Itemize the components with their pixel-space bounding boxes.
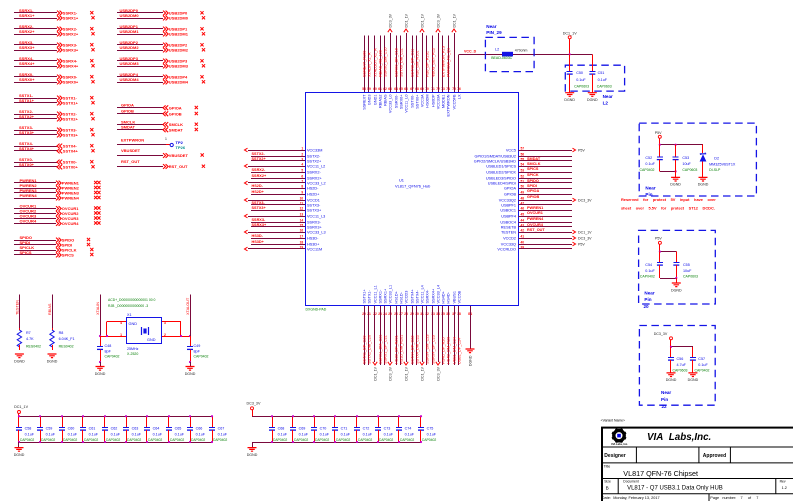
svg-text:VCC33_L3: VCC33_L3 [307, 230, 326, 234]
svg-text:C49: C49 [194, 344, 201, 348]
svg-text:6.04K_F1: 6.04K_F1 [59, 337, 75, 341]
wire SSTX3- [251, 204, 305, 206]
wire SPIDI [519, 182, 573, 184]
svg-text:44: 44 [521, 218, 525, 222]
svg-text:Title: Title [604, 465, 611, 469]
wire power DC3_3V [438, 306, 440, 362]
port SSRX0- [57, 75, 62, 80]
wire OVCUR2 [14, 213, 56, 215]
svg-text:C71: C71 [341, 427, 348, 431]
svg-text:DC3_3V: DC3_3V [247, 402, 261, 406]
wire SSTX0_DM_C11 [400, 36, 402, 93]
wire EXTPWRON_R13 [442, 36, 444, 93]
svg-text:22: 22 [662, 404, 668, 409]
wire power VCC33_L3 [248, 232, 305, 234]
svg-text:C56: C56 [677, 357, 684, 361]
svg-text:10uF: 10uF [682, 162, 691, 166]
svg-text:CAP0402: CAP0402 [315, 438, 330, 442]
svg-text:17: 17 [300, 234, 304, 238]
svg-text:CAP0402: CAP0402 [106, 438, 121, 442]
wire RST_OUT [117, 166, 163, 168]
no-connect OVCUR4 [94, 221, 97, 224]
no-connect USB2DP3 [200, 59, 203, 62]
wire SPICLK [14, 250, 56, 252]
wire power DC1_1V [519, 232, 573, 234]
wire SSRX3+ [14, 50, 57, 52]
wire USB2DP2 [117, 44, 163, 46]
svg-text:SSTX1+: SSTX1+ [19, 98, 35, 103]
capacitor C75 [418, 416, 424, 442]
wire SSRX3+ [251, 226, 305, 228]
svg-text:SSRX2+: SSRX2+ [19, 29, 35, 34]
svg-text:CAP0402: CAP0402 [191, 438, 206, 442]
bank2 bottom rail [252, 442, 421, 444]
svg-text:PWREN4: PWREN4 [20, 193, 38, 198]
svg-text:70: 70 [425, 87, 429, 91]
capacitor C52 [657, 145, 663, 172]
svg-text:CAP0402: CAP0402 [336, 438, 351, 442]
svg-text:CAP0603: CAP0603 [682, 168, 697, 172]
wire SSRX1- [14, 12, 57, 14]
wire power DC1_1V [374, 306, 376, 362]
wire power DC3_3V [519, 238, 573, 240]
no-connect SSTX2+ [91, 117, 94, 120]
ground D2 [698, 177, 709, 186]
svg-text:DC3_3V: DC3_3V [388, 366, 392, 380]
port USB2DM3 [163, 64, 168, 69]
wire power DC3_3V [390, 306, 392, 362]
svg-text:RST_OUT: RST_OUT [527, 228, 545, 232]
svg-text:SSTX0+: SSTX0+ [19, 162, 35, 167]
wire SSRX0_DM_C10 [384, 36, 386, 93]
wire power VCC33_L2 [248, 182, 305, 184]
svg-text:HS0DP: HS0DP [431, 94, 435, 107]
svg-text:4: 4 [301, 162, 303, 166]
ground R7 [14, 354, 25, 363]
wire power DC1_1V [406, 33, 408, 92]
port SSTX0- [57, 160, 62, 165]
svg-text:C72: C72 [363, 427, 370, 431]
wire SSRX4+ [14, 66, 57, 68]
svg-text:GPIOA: GPIOA [169, 105, 182, 110]
wire power DC1_1V [406, 306, 408, 362]
svg-text:SSTX2+: SSTX2+ [19, 114, 35, 119]
wire XTALOUT_X1_A [374, 36, 376, 93]
port SPICLK [56, 248, 61, 253]
no-connect SPICS [90, 253, 93, 256]
no-connect SSTX0+ [91, 165, 94, 168]
wire SMCLK [117, 124, 163, 126]
svg-text:USBLED4/SPIDI: USBLED4/SPIDI [488, 181, 516, 185]
svg-text:HS2D+: HS2D+ [252, 190, 265, 194]
svg-text:DC3_3V: DC3_3V [436, 13, 440, 27]
svg-text:DC3_3V: DC3_3V [654, 332, 668, 336]
svg-text:C52: C52 [645, 156, 652, 160]
svg-text:RBIAS2: RBIAS2 [378, 95, 382, 109]
wire XTALIN [100, 295, 102, 336]
port SMDAT [163, 127, 168, 132]
wire SSTX3+ [251, 210, 305, 212]
no-connect SSRX3- [90, 43, 93, 46]
svg-text:DGND: DGND [14, 359, 25, 363]
power DC1_1V [563, 32, 577, 39]
port SSRX0+ [57, 80, 62, 85]
svg-text:HS3D-: HS3D- [252, 234, 264, 238]
no-connect SSTX0- [90, 160, 93, 163]
svg-text:40: 40 [521, 240, 525, 244]
svg-text:76: 76 [457, 87, 461, 91]
svg-text:SSRX2+: SSRX2+ [63, 32, 79, 37]
svg-text:SSTX2-: SSTX2- [307, 154, 321, 158]
wire GPIOB [117, 113, 163, 115]
svg-text:DGND: DGND [698, 183, 709, 187]
svg-text:DGND: DGND [95, 372, 106, 376]
svg-text:SSRX3+: SSRX3+ [19, 45, 35, 50]
svg-text:6: 6 [301, 174, 303, 178]
svg-text:CAP0402: CAP0402 [127, 438, 142, 442]
wire RBIAS_R8_100 [380, 36, 382, 93]
capacitor C51 [592, 54, 594, 60]
svg-text:Near: Near [603, 94, 613, 99]
wire SSTX1+ [14, 102, 57, 104]
svg-text:50: 50 [521, 184, 525, 188]
svg-text:SSRX3+: SSRX3+ [307, 225, 322, 229]
wire OVCUR4 [14, 223, 56, 225]
wire PWREN4 [14, 198, 56, 200]
wire SSTX4_DM_C22 [416, 306, 418, 365]
svg-text:CAP0402: CAP0402 [294, 438, 309, 442]
svg-text:SSRX0_DM_C10: SSRX0_DM_C10 [383, 47, 387, 77]
wire GPIOB [519, 194, 573, 196]
port SSRX1- [57, 11, 62, 16]
no-connect OVCUR3 [94, 216, 97, 219]
svg-text:HS3D+: HS3D+ [252, 240, 265, 244]
svg-text:MODE1: MODE1 [441, 95, 445, 109]
svg-text:Rev: Rev [780, 479, 786, 483]
svg-text:4.7K: 4.7K [26, 337, 34, 341]
wire power VCC11_L2 [248, 166, 305, 168]
svg-text:C74: C74 [405, 427, 412, 431]
svg-text:VCC11M: VCC11M [307, 247, 322, 251]
no-connect USB2DP2 [200, 43, 203, 46]
svg-text:13: 13 [300, 212, 304, 216]
svg-text:SSTX0_DM_C11: SSTX0_DM_C11 [399, 48, 403, 77]
no-connect SSRX1- [90, 11, 93, 14]
wire SSTX0- [14, 162, 57, 164]
svg-text:CAP0402: CAP0402 [148, 438, 163, 442]
svg-text:Approved: Approved [703, 453, 726, 459]
svg-text:VCC33Q2: VCC33Q2 [499, 198, 516, 202]
node rail box3 [671, 346, 693, 348]
svg-text:0.1uF: 0.1uF [384, 432, 394, 436]
wire power DC3_3V [438, 33, 440, 92]
bank1 bottom rail [19, 442, 212, 444]
svg-text:CAP0402: CAP0402 [640, 275, 655, 279]
svg-text:VL817 QFN-76 Chipset: VL817 QFN-76 Chipset [623, 469, 698, 478]
title block frame [602, 428, 793, 501]
svg-text:VCC11_L2: VCC11_L2 [307, 164, 325, 168]
svg-text:SSTX3+: SSTX3+ [307, 208, 322, 212]
svg-text:CAP0603: CAP0603 [574, 84, 589, 88]
svg-text:DC3_3V: DC3_3V [436, 366, 440, 380]
svg-text:VCC33_L4: VCC33_L4 [436, 285, 440, 304]
svg-text:HS1D+: HS1D+ [394, 290, 398, 303]
svg-text:HS0_DM_R101: HS0_DM_R101 [415, 50, 419, 77]
wire VBUSDET [117, 155, 163, 157]
svg-text:VCC33_L0: VCC33_L0 [388, 95, 392, 114]
no-connect SSRX2- [90, 27, 93, 30]
no-connect OVCUR2 [94, 211, 97, 214]
svg-text:VCC3A: VCC3A [420, 94, 424, 107]
dashed box Near PIN_29 [485, 37, 534, 71]
wire VCC_D rail [459, 54, 592, 56]
no-connect SSTX1- [90, 96, 93, 99]
svg-text:10: 10 [300, 196, 304, 200]
dashed box Near Pin 22 [639, 326, 715, 406]
svg-text:VCC5B: VCC5B [457, 290, 461, 303]
svg-text:sheet over 5.5V for protect ST: sheet over 5.5V for protect ST12 DCDC. [621, 205, 715, 210]
svg-text:SSTX2-: SSTX2- [252, 152, 266, 156]
svg-text:VBUS1: VBUS1 [452, 291, 456, 303]
svg-text:RBIAS: RBIAS [48, 303, 52, 315]
svg-text:57: 57 [521, 146, 525, 150]
svg-text:10uF: 10uF [683, 269, 692, 273]
no-connect PWREN3 [94, 191, 97, 194]
svg-text:XTALOUT_X1_A: XTALOUT_X1_A [373, 48, 377, 77]
svg-text:HS2D-: HS2D- [307, 186, 319, 190]
wire SPIDO [14, 240, 56, 242]
port USB2DM4 [163, 80, 168, 85]
port SSTX2+ [57, 117, 62, 122]
wire SSRX1+ [14, 18, 57, 20]
svg-text:LX: LX [457, 94, 461, 99]
svg-text:R7: R7 [26, 331, 31, 335]
svg-text:DGND: DGND [688, 378, 699, 382]
svg-text:SSTX2+: SSTX2+ [252, 157, 267, 161]
wire X1 pin2 [162, 336, 190, 338]
svg-text:VBUSDET: VBUSDET [121, 148, 141, 153]
wire OVCUR3 [14, 218, 56, 220]
svg-text:CAP0402: CAP0402 [695, 368, 710, 372]
ground bank2 [252, 442, 254, 448]
wire USB2DM3 [117, 66, 163, 68]
svg-text:RST_OUT: RST_OUT [169, 164, 188, 169]
svg-text:SSTX4_DP_C22: SSTX4_DP_C22 [410, 336, 414, 365]
svg-text:EXTPWRON_R13: EXTPWRON_R13 [441, 46, 445, 77]
svg-text:C73: C73 [384, 427, 391, 431]
no-connect SMDAT [195, 128, 198, 131]
svg-text:0.1uF: 0.1uF [363, 432, 373, 436]
wire HS2D- [251, 188, 305, 190]
svg-text:SSRX0+: SSRX0+ [63, 80, 79, 85]
wire HS4D_DP_R20 [442, 306, 444, 365]
wire power P5V [519, 244, 573, 246]
svg-text:SSTX4_DM_C22: SSTX4_DM_C22 [415, 335, 419, 364]
svg-text:C70: C70 [320, 427, 327, 431]
bank1 top rail [19, 416, 212, 418]
svg-text:0.1uF: 0.1uF [645, 162, 655, 166]
port SSRX4+ [57, 64, 62, 69]
capacitor C65 [166, 416, 172, 442]
inductor L2 ferrite bead [502, 52, 513, 57]
bank2 top rail [252, 416, 421, 418]
svg-text:0.1uF: 0.1uF [645, 269, 655, 273]
diode D2 zener [702, 145, 704, 153]
svg-text:0.1uF: 0.1uF [278, 432, 288, 436]
svg-text:P5V: P5V [655, 131, 662, 135]
svg-text:SSRX1+: SSRX1+ [19, 13, 35, 18]
svg-text:C50: C50 [576, 71, 583, 75]
wire SSTX0+ [14, 166, 57, 168]
wire power DC1_1V [454, 33, 456, 92]
svg-text:C65: C65 [175, 427, 182, 431]
port USB2DM0 [163, 16, 168, 21]
svg-text:0.1uF: 0.1uF [576, 78, 586, 82]
port RST_OUT [163, 164, 168, 169]
svg-text:R8: R8 [59, 331, 64, 335]
svg-text:DGND: DGND [587, 98, 598, 102]
no-connect SSTX3+ [91, 133, 94, 136]
svg-text:46: 46 [521, 206, 525, 210]
svg-text:0.1uF: 0.1uF [153, 432, 163, 436]
svg-text:SSRX3-: SSRX3- [307, 220, 321, 224]
wire HS1D_DM_R201 [400, 306, 402, 365]
ground C53 [670, 177, 681, 186]
svg-text:0.1uF: 0.1uF [698, 363, 708, 367]
capacitor C59 [37, 416, 43, 442]
svg-text:5: 5 [301, 168, 303, 172]
svg-text:60: 60 [373, 87, 377, 91]
svg-text:DC1_1V: DC1_1V [404, 366, 408, 380]
svg-text:DC1_1V: DC1_1V [404, 13, 408, 27]
port SSRX3+ [57, 48, 62, 53]
port GPIOB [163, 111, 168, 116]
resistor R8 [52, 328, 54, 330]
svg-text:MM3Z5V6ST1X: MM3Z5V6ST1X [709, 163, 736, 167]
wire USB2DM0 [117, 18, 163, 20]
svg-text:EXTPWRON: EXTPWRON [446, 94, 450, 116]
svg-text:SSTX1+: SSTX1+ [362, 288, 366, 303]
ground C49 [190, 362, 192, 367]
svg-text:18: 18 [300, 240, 304, 244]
svg-text:HS4D+: HS4D+ [441, 290, 445, 303]
svg-text:53: 53 [521, 168, 525, 172]
wire USB2DP1 [117, 28, 163, 30]
svg-text:DC1_1V: DC1_1V [563, 32, 577, 36]
svg-text:P5V: P5V [578, 148, 585, 152]
wire PWREN1 [519, 204, 573, 206]
no-connect SSTX3- [90, 128, 93, 131]
svg-text:24: 24 [383, 312, 387, 316]
wire SSTX4- [14, 146, 57, 148]
port SSTX1- [57, 96, 62, 101]
svg-text:GND3: GND3 [367, 95, 371, 106]
svg-text:RST_OUT: RST_OUT [121, 159, 140, 164]
svg-text:HS2D-: HS2D- [252, 184, 264, 188]
capacitor C53 [673, 145, 679, 178]
wire GPIOA [519, 188, 573, 190]
svg-text:SSRX1-: SSRX1- [378, 289, 382, 303]
svg-text:VCC11_L3: VCC11_L3 [307, 214, 325, 218]
ground box2 [676, 278, 678, 283]
wire SSTX1_DM_C20 [368, 306, 370, 365]
wire SSTX3- [14, 130, 57, 132]
no-connect SSTX4+ [91, 149, 94, 152]
no-connect SSRX1+ [91, 16, 94, 19]
svg-text:Reserved for protect 5V input: Reserved for protect 5V input have over [621, 197, 716, 202]
svg-text:SPIDI: SPIDI [527, 184, 537, 188]
svg-text:CAP0402: CAP0402 [41, 438, 56, 442]
svg-text:DC1_1V: DC1_1V [420, 13, 424, 27]
wire PWREN3 [14, 192, 56, 194]
svg-text:PWREN4: PWREN4 [62, 196, 80, 201]
wire SSRX0+ [14, 82, 57, 84]
wire SPICK [519, 172, 573, 174]
svg-text:SSRX1+: SSRX1+ [63, 16, 79, 21]
no-connect RST_OUT [202, 165, 205, 168]
capacitor C66 [187, 416, 193, 442]
svg-text:USB1_DP_C24: USB1_DP_C24 [457, 338, 461, 364]
svg-text:USBLED3/SPIDO: USBLED3/SPIDO [486, 176, 516, 180]
wire SSTX2- [14, 114, 57, 116]
svg-text:9: 9 [301, 190, 303, 194]
svg-text:VIA Labs, Inc.: VIA Labs, Inc. [611, 442, 628, 446]
port SSRX4- [57, 59, 62, 64]
no-connect OVCUR1 [94, 206, 97, 209]
svg-text:VCCD1: VCCD1 [307, 198, 320, 202]
svg-text:SSRX2+: SSRX2+ [252, 174, 267, 178]
port SSRX3- [57, 43, 62, 48]
svg-text:DC1_1V: DC1_1V [578, 230, 592, 234]
capacitor C73 [375, 416, 381, 442]
port PWREN3 [56, 191, 61, 196]
wire SMCLK [519, 160, 573, 162]
svg-text:4.7uF: 4.7uF [677, 363, 687, 367]
wire SPIDI [14, 244, 56, 246]
svg-text:PWREN4: PWREN4 [527, 217, 544, 221]
svg-text:73: 73 [441, 87, 445, 91]
svg-text:C58: C58 [25, 427, 32, 431]
port USB2DP1 [163, 27, 168, 32]
svg-text:DC3_3V: DC3_3V [578, 198, 592, 202]
svg-text:DGND: DGND [14, 453, 25, 457]
svg-text:USBPF1: USBPF1 [501, 203, 516, 207]
port SPIDI [56, 243, 61, 248]
svg-text:PWRSW_N1_Q1: PWRSW_N1_Q1 [446, 48, 450, 77]
svg-text:42: 42 [521, 228, 525, 232]
svg-text:RES0402: RES0402 [59, 344, 74, 348]
svg-text:SPICS: SPICS [527, 167, 539, 171]
wire SPICS [14, 254, 56, 256]
wire power VCC33M [248, 150, 305, 152]
wire PWRSW_N1_Q1 [448, 36, 450, 93]
svg-text:SMDAT: SMDAT [169, 127, 183, 132]
svg-text:8pF: 8pF [105, 349, 112, 353]
svg-text:SSRX4+: SSRX4+ [63, 64, 79, 69]
port SSRX2+ [57, 32, 62, 37]
svg-text:C59: C59 [46, 427, 53, 431]
svg-text:SSTX4-: SSTX4- [415, 289, 419, 303]
port SSTX3+ [57, 133, 62, 138]
svg-text:USB2DM3: USB2DM3 [120, 61, 140, 66]
svg-text:Page number: 7 of: Page number: 7 of 7 [710, 496, 758, 500]
svg-text:USB2DM1: USB2DM1 [120, 29, 140, 34]
svg-text:DC1_1V: DC1_1V [452, 13, 456, 27]
wire SSTX4+ [14, 150, 57, 152]
svg-text:SSTX4+: SSTX4+ [63, 149, 79, 154]
svg-text:VCC_D: VCC_D [464, 50, 477, 54]
wire PWREN1 [14, 182, 56, 184]
